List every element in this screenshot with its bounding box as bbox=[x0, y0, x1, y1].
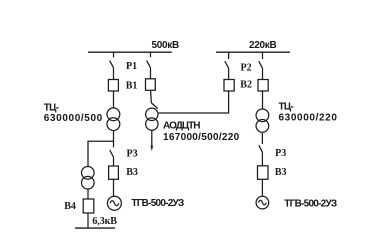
svg-text:167000/500/220: 167000/500/220 bbox=[163, 132, 240, 143]
svg-text:Р1: Р1 bbox=[126, 61, 137, 72]
breaker B1 (left feeder) bbox=[108, 80, 118, 92]
svg-text:630000/220: 630000/220 bbox=[279, 112, 338, 123]
disconnector P3 (right) blade bbox=[259, 145, 263, 152]
svg-text:ТЦ-: ТЦ- bbox=[44, 102, 59, 113]
generator G1 TGV-500-2UZ bbox=[107, 196, 121, 210]
transformer T2 TTs-630000/220 bbox=[256, 109, 269, 132]
autotransformer series tap hook bbox=[151, 103, 157, 109]
svg-text:6,3кВ: 6,3кВ bbox=[92, 216, 117, 227]
node: drop tick on 500kV bus (autotransformer feeder) bbox=[150, 52, 152, 57]
svg-text:Р3: Р3 bbox=[275, 148, 286, 159]
autotransformer AODTsTN 167000/500/220 bbox=[146, 108, 158, 130]
wire: T1 down to junction bbox=[113, 131, 115, 142]
svg-text:630000/500: 630000/500 bbox=[44, 113, 103, 124]
node: drop tick on 500kV bus (left feeder) bbox=[113, 52, 115, 57]
bus 6.3kV bbox=[75, 227, 115, 229]
svg-text:220кВ: 220кВ bbox=[249, 40, 276, 51]
wire: junction branch to aux transformer bbox=[88, 141, 114, 166]
svg-text:В3: В3 bbox=[126, 167, 138, 178]
generator G2 TGV-500-2UZ bbox=[256, 196, 269, 209]
breaker B1 (autotransformer feeder) bbox=[146, 79, 156, 91]
breaker B2 (link feeder) bbox=[224, 80, 234, 92]
svg-text:АОДЦТН: АОДЦТН bbox=[163, 121, 200, 132]
svg-text:В1: В1 bbox=[126, 80, 138, 91]
wire: T2 down tick bbox=[261, 132, 263, 144]
disconnector P2 (link feeder) blade bbox=[225, 61, 229, 68]
transformer T1 TTs-630000/500 bbox=[107, 108, 120, 131]
wire: to breaker bbox=[150, 68, 152, 79]
node: drop tick on 220kV bus (transformer feeder) bbox=[262, 52, 264, 59]
wire: P3 to B3 (left) bbox=[113, 157, 115, 166]
wire: to breaker bbox=[262, 68, 264, 79]
disconnector P2 (transformer feeder) blade bbox=[259, 61, 263, 68]
svg-text:ТГВ-500-2УЗ: ТГВ-500-2УЗ bbox=[284, 198, 337, 209]
bus 500kV bbox=[88, 51, 172, 53]
wire: autotransformer neutral stub with arrow bbox=[151, 130, 154, 151]
svg-text:500кВ: 500кВ bbox=[152, 40, 179, 51]
bus 220kV bbox=[216, 51, 290, 53]
wire: B3 to generator G2 bbox=[261, 179, 263, 196]
wire: P2 to B2 bbox=[228, 68, 230, 79]
wire: P3 to B3 (right) bbox=[261, 152, 263, 166]
wire: B2 to transformer T2 bbox=[262, 91, 264, 109]
wire: breaker to autotransformer bbox=[150, 90, 153, 103]
breaker B4 bbox=[83, 199, 94, 213]
node: drop tick on 220kV bus (link feeder) bbox=[228, 52, 230, 59]
disconnector P1 (autotransformer feeder) blade bbox=[147, 61, 151, 68]
svg-text:Р2: Р2 bbox=[241, 62, 252, 73]
disconnector P3 (left) blade bbox=[110, 150, 114, 157]
wire: B4 to 6.3kV bus bbox=[87, 213, 89, 228]
wire: autotransformer link to 220kV side bbox=[158, 91, 229, 113]
wire: B3 to generator G1 bbox=[113, 179, 115, 196]
aux transformer (unit auxiliary) bbox=[82, 167, 95, 190]
svg-text:Р3: Р3 bbox=[127, 148, 138, 159]
svg-text:ТЦ-: ТЦ- bbox=[279, 102, 294, 113]
breaker B3 (left) bbox=[109, 166, 119, 179]
svg-text:В3: В3 bbox=[275, 167, 287, 178]
node: generator branch tick bbox=[113, 141, 115, 147]
disconnector P1 (left feeder) blade bbox=[110, 61, 114, 68]
svg-text:ТГВ-500-2УЗ: ТГВ-500-2УЗ bbox=[131, 198, 184, 209]
wire: P1 to B1 bbox=[113, 68, 115, 80]
svg-text:В2: В2 bbox=[240, 80, 252, 91]
wire: aux transformer to B4 bbox=[87, 189, 89, 199]
wire: B1 to transformer T1 bbox=[113, 91, 115, 108]
svg-text:В4: В4 bbox=[64, 201, 76, 212]
breaker B3 (right) bbox=[258, 166, 269, 180]
breaker B2 (transformer feeder) bbox=[258, 80, 268, 92]
